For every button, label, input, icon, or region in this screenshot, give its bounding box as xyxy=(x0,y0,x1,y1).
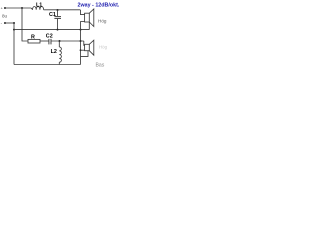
svg-text:2way - 12dB/okt.: 2way - 12dB/okt. xyxy=(78,2,120,8)
svg-text:Hög: Hög xyxy=(99,45,108,50)
svg-text:8u: 8u xyxy=(2,14,8,19)
svg-text:L2: L2 xyxy=(51,49,57,55)
svg-text:C1: C1 xyxy=(49,12,56,18)
svg-text:R: R xyxy=(31,35,35,41)
svg-text:+: + xyxy=(1,7,4,11)
svg-text:L1: L1 xyxy=(36,2,42,8)
svg-text:C2: C2 xyxy=(46,34,53,40)
svg-text:Bas: Bas xyxy=(96,62,105,68)
svg-text:Hög: Hög xyxy=(98,18,107,23)
svg-text:-: - xyxy=(1,21,3,26)
